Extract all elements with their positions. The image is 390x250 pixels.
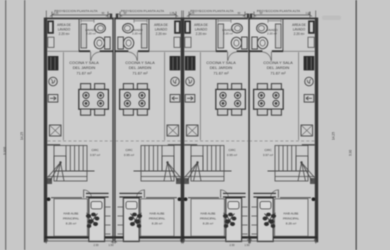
svg-text:CIRC: CIRC xyxy=(228,148,236,152)
svg-text:CIRC: CIRC xyxy=(264,148,272,152)
margin line left xyxy=(24,0,25,250)
margin line far left xyxy=(5,0,6,250)
svg-text:CIRC: CIRC xyxy=(91,148,99,152)
unit 3 xyxy=(181,11,252,244)
svg-text:PROYECCION PLANTA ALTA: PROYECCION PLANTA ALTA xyxy=(190,9,234,13)
svg-text:LAVADO: LAVADO xyxy=(293,28,306,32)
svg-text:1.50: 1.50 xyxy=(108,243,114,247)
text labels layer xyxy=(54,9,311,247)
svg-text:PRINCIPAL: PRINCIPAL xyxy=(63,217,79,221)
bottom dim texts xyxy=(93,243,250,247)
svg-text:HAB ALBE: HAB ALBE xyxy=(284,212,299,216)
top small dim numbers xyxy=(54,12,311,15)
svg-text:AREA DE: AREA DE xyxy=(194,23,208,27)
svg-text:CIRC: CIRC xyxy=(125,148,133,152)
faint stamp xyxy=(322,16,341,21)
svg-text:PRINCIPAL: PRINCIPAL xyxy=(283,217,299,221)
svg-text:2.20 m²: 2.20 m² xyxy=(86,32,96,36)
svg-text:2.30: 2.30 xyxy=(93,243,99,247)
svg-text:1.05: 1.05 xyxy=(190,12,195,15)
svg-text:2.20 m²: 2.20 m² xyxy=(196,32,207,36)
area de lavado labels xyxy=(57,23,306,36)
svg-text:71.67 m²: 71.67 m² xyxy=(270,71,286,76)
svg-text:2.20 m²: 2.20 m² xyxy=(223,32,233,36)
svg-text:1.05: 1.05 xyxy=(54,12,59,15)
svg-text:LAVADO: LAVADO xyxy=(155,28,168,32)
svg-text:3.90: 3.90 xyxy=(349,150,353,156)
svg-text:71.67 m²: 71.67 m² xyxy=(213,71,229,76)
circ labels xyxy=(90,148,273,157)
svg-text:HAB ALBE: HAB ALBE xyxy=(201,212,216,216)
svg-text:HAB ALBE: HAB ALBE xyxy=(150,212,165,216)
svg-text:3.97 m²: 3.97 m² xyxy=(90,153,100,157)
svg-text:DEL JARDIN: DEL JARDIN xyxy=(267,65,290,70)
svg-text:8.29 m²: 8.29 m² xyxy=(66,222,77,226)
svg-text:DEL JARDIN: DEL JARDIN xyxy=(73,65,96,70)
svg-text:71.67 m²: 71.67 m² xyxy=(132,71,148,76)
svg-text:PROYECCION PLANTA ALTA: PROYECCION PLANTA ALTA xyxy=(257,9,301,13)
unit 2 (mirror) xyxy=(113,11,184,244)
svg-text:2.20 m²: 2.20 m² xyxy=(294,32,305,36)
margin line right xyxy=(356,0,357,250)
svg-text:14.25: 14.25 xyxy=(332,132,336,140)
svg-text:1.50: 1.50 xyxy=(244,243,250,247)
svg-text:3.90E: 3.90E xyxy=(3,147,7,155)
svg-text:AREA DE: AREA DE xyxy=(292,23,306,27)
svg-text:DEL JARDIN: DEL JARDIN xyxy=(210,65,233,70)
svg-text:8.29 m²: 8.29 m² xyxy=(152,222,163,226)
svg-text:2.20 m²: 2.20 m² xyxy=(132,32,142,36)
unit 1 xyxy=(44,11,115,244)
svg-text:0.95 m²: 0.95 m² xyxy=(124,153,134,157)
habitacion labels xyxy=(63,212,299,226)
svg-text:2.20 m²: 2.20 m² xyxy=(156,32,167,36)
svg-text:2.20 m²: 2.20 m² xyxy=(59,32,70,36)
svg-text:PROYECCION PLANTA ALTA: PROYECCION PLANTA ALTA xyxy=(121,9,165,13)
svg-text:3.97 m²: 3.97 m² xyxy=(263,153,273,157)
svg-text:14.25: 14.25 xyxy=(20,132,24,140)
svg-text:AREA DE: AREA DE xyxy=(57,23,71,27)
svg-text:71.67 m²: 71.67 m² xyxy=(76,71,92,76)
svg-text:PROYECCION PLANTA ALTA: PROYECCION PLANTA ALTA xyxy=(54,9,98,13)
svg-text:HAB ALBE: HAB ALBE xyxy=(64,212,79,216)
svg-text:LAVADO: LAVADO xyxy=(195,28,208,32)
svg-text:2.30: 2.30 xyxy=(229,243,235,247)
unit 4 (mirror) xyxy=(247,11,318,244)
svg-text:8.29 m²: 8.29 m² xyxy=(203,222,214,226)
bano labels xyxy=(85,28,278,36)
svg-text:8.29 m²: 8.29 m² xyxy=(286,222,297,226)
svg-text:0.95 m²: 0.95 m² xyxy=(227,153,237,157)
svg-text:2.20 m²: 2.20 m² xyxy=(267,32,277,36)
cocina y sala labels xyxy=(69,60,293,76)
svg-text:PRINCIPAL: PRINCIPAL xyxy=(200,217,216,221)
svg-text:1.05: 1.05 xyxy=(306,12,311,15)
svg-text:AREA DE: AREA DE xyxy=(154,23,168,27)
svg-text:PRINCIPAL: PRINCIPAL xyxy=(149,217,165,221)
svg-text:DEL JARDIN: DEL JARDIN xyxy=(129,65,152,70)
svg-text:1.05: 1.05 xyxy=(170,12,175,15)
svg-text:LAVADO: LAVADO xyxy=(58,28,71,32)
